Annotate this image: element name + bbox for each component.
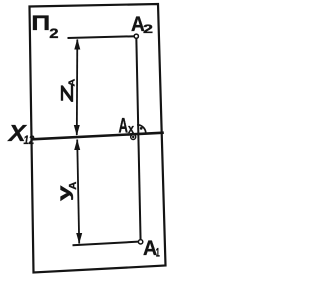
svg-text:12: 12 — [24, 133, 35, 147]
svg-text:П: П — [31, 12, 50, 35]
svg-text:x: x — [128, 121, 135, 136]
svg-text:A: A — [68, 181, 79, 190]
svg-text:A: A — [119, 114, 129, 138]
svg-text:A: A — [66, 79, 76, 87]
svg-text:2: 2 — [49, 26, 58, 42]
svg-text:1: 1 — [156, 247, 160, 259]
svg-text:2: 2 — [143, 23, 154, 36]
